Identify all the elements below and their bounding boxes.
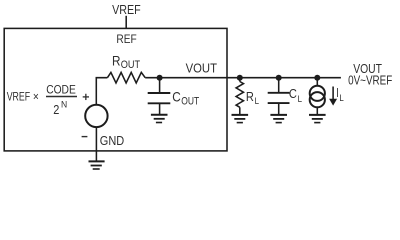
svg-text:CODE: CODE <box>46 82 76 96</box>
node dot R_L <box>237 75 243 81</box>
node dot R_OUT/C_OUT junction <box>157 75 163 81</box>
wire source bottom lead to GND <box>95 127 97 161</box>
ground (source) <box>89 161 105 169</box>
svg-text:VREF: VREF <box>7 89 30 103</box>
svg-text:2: 2 <box>53 103 59 117</box>
voltage source V1 <box>85 105 107 127</box>
arrow head I_L <box>329 99 337 106</box>
resistor R_L <box>236 82 243 108</box>
wire VOUT net <box>145 77 341 79</box>
svg-text:REF: REF <box>116 32 136 46</box>
ground (I_L) <box>309 115 326 123</box>
svg-text:R: R <box>246 90 254 104</box>
wire source to R_OUT <box>96 78 107 105</box>
capacitor C_OUT <box>148 93 171 103</box>
ground (C_L) <box>270 115 287 123</box>
wire C_OUT to ground <box>159 103 161 114</box>
plus sign of source <box>83 94 89 100</box>
node dot C_L <box>276 75 282 81</box>
capacitor C_L <box>268 93 290 103</box>
wire VREF tick <box>125 16 127 29</box>
wire I_L to ground <box>316 107 318 115</box>
svg-text:L: L <box>298 94 302 105</box>
wire R_L to ground <box>239 107 241 115</box>
svg-text:I: I <box>336 86 339 100</box>
DAC block box <box>4 28 227 150</box>
current source I_L circles <box>310 86 325 101</box>
svg-text:L: L <box>339 93 343 104</box>
svg-text:0V~VREF: 0V~VREF <box>348 74 392 88</box>
wire C_L top lead <box>278 78 280 93</box>
fraction bar <box>46 96 77 98</box>
svg-text:OUT: OUT <box>181 95 199 107</box>
svg-text:VOUT: VOUT <box>186 62 218 76</box>
wire I_L top lead <box>316 78 318 86</box>
wire R_L top lead <box>239 78 241 82</box>
resistor R_OUT <box>107 72 145 83</box>
svg-text:VREF: VREF <box>112 3 141 17</box>
node dot I_L <box>314 75 320 81</box>
svg-text:N: N <box>61 100 67 111</box>
wire C_L to ground <box>278 103 280 115</box>
arrow I_L direction <box>332 87 334 100</box>
svg-text:L: L <box>255 96 259 107</box>
minus sign of source <box>82 136 88 138</box>
svg-text:C: C <box>289 87 297 101</box>
svg-text:OUT: OUT <box>121 59 141 71</box>
wire node to C_OUT <box>159 78 161 93</box>
ground (C_OUT) <box>151 115 168 123</box>
ground (R_L) <box>232 115 249 123</box>
svg-text:C: C <box>172 88 181 104</box>
svg-text:R: R <box>112 52 121 68</box>
svg-text:GND: GND <box>100 134 124 148</box>
svg-text:×: × <box>33 89 39 103</box>
